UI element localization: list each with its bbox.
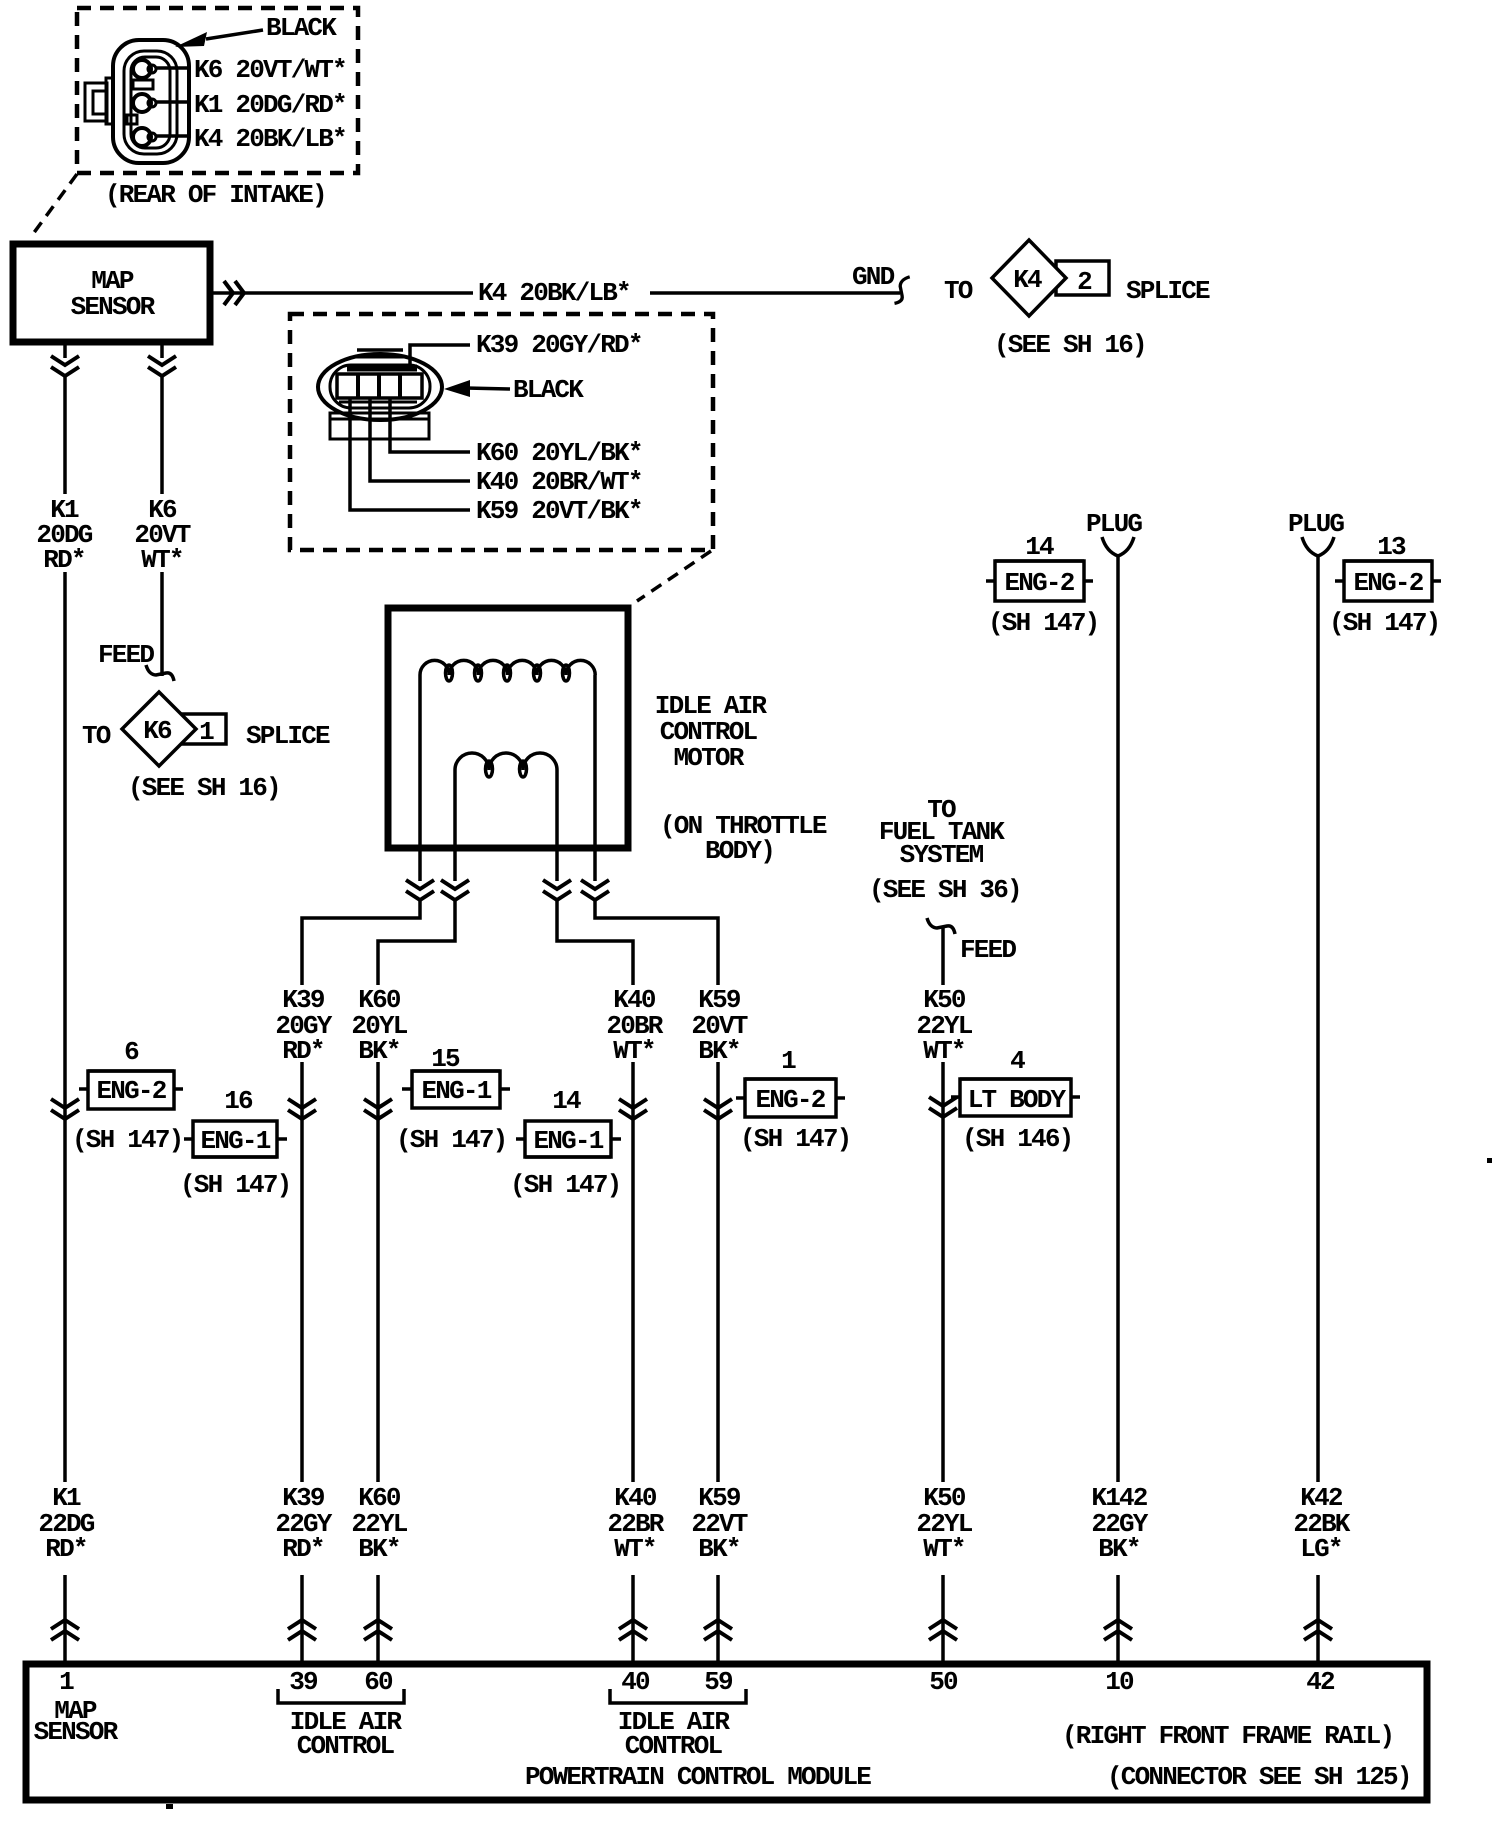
svg-text:59: 59 xyxy=(704,1667,733,1697)
wire K6 to feed splice xyxy=(160,572,164,676)
MAP SENSOR box xyxy=(13,244,210,342)
svg-text:13: 13 xyxy=(1377,532,1406,562)
wire K50 to PCM xyxy=(941,1575,945,1661)
leader K59 pin xyxy=(350,398,470,510)
svg-text:SENSOR: SENSOR xyxy=(34,1717,119,1747)
label K142 22GY BK* xyxy=(1091,1483,1148,1564)
label K40 20BR WT* xyxy=(606,985,663,1066)
svg-text:K4 20BK/LB*: K4 20BK/LB* xyxy=(194,124,346,154)
wire K50 main run xyxy=(941,1062,945,1482)
wire stub coil1 right xyxy=(593,845,597,881)
svg-text:(REAR OF INTAKE): (REAR OF INTAKE) xyxy=(105,180,326,210)
svg-text:TO: TO xyxy=(82,721,111,751)
connector ENG-1 cavity 14 xyxy=(516,1121,621,1157)
inline connector chevrons at PCM pin 1 xyxy=(51,1620,79,1640)
plug symbol K42 xyxy=(1302,537,1334,556)
wire break hook (GND) xyxy=(895,277,910,304)
label K59 20VT BK* xyxy=(691,985,747,1066)
inline connector chevrons at PCM pin 60 xyxy=(364,1620,392,1640)
svg-text:(SH 147): (SH 147) xyxy=(510,1170,620,1200)
connector C114 lower latch xyxy=(330,413,429,439)
svg-text:K40 20BR/WT*: K40 20BR/WT* xyxy=(476,467,642,497)
svg-text:BK*: BK* xyxy=(358,1534,399,1564)
label K6 20VT WT* xyxy=(134,495,190,575)
svg-text:(SH 147): (SH 147) xyxy=(180,1170,290,1200)
pin K4 cavity xyxy=(133,128,156,146)
IAC upper coil winding xyxy=(420,660,595,845)
connector C114 oval body xyxy=(318,350,442,420)
wire K1 to PCM xyxy=(63,1575,67,1661)
svg-text:RD*: RD* xyxy=(282,1534,323,1564)
svg-text:(SH 146): (SH 146) xyxy=(962,1124,1072,1154)
label K39 22GY RD* xyxy=(275,1483,332,1564)
wire K42 main run xyxy=(1316,556,1320,1482)
svg-text:K59 20VT/BK*: K59 20VT/BK* xyxy=(476,496,642,526)
wire K4 20BK/LB* from MAP sensor xyxy=(213,291,900,295)
svg-text:2: 2 xyxy=(1077,267,1092,297)
connector detail C114 dashed box xyxy=(290,314,713,550)
wire stub coil1 left xyxy=(418,845,422,881)
inline connector chevrons on K40 xyxy=(619,1099,647,1119)
svg-text:SPLICE: SPLICE xyxy=(246,721,330,751)
connector LT BODY cavity 4 xyxy=(951,1079,1080,1116)
svg-text:RD*: RD* xyxy=(282,1036,323,1066)
svg-text:6: 6 xyxy=(124,1037,139,1067)
inline connector chevrons on K1 xyxy=(51,1099,79,1119)
label K50 22YL WT* (bottom) xyxy=(916,1483,972,1564)
label IDLE AIR CONTROL MOTOR xyxy=(655,691,768,773)
svg-text:WT*: WT* xyxy=(923,1036,964,1066)
svg-text:TO: TO xyxy=(944,276,973,306)
inline connector chevrons at PCM pin 59 xyxy=(704,1620,732,1640)
connector detail C113 dashed box xyxy=(77,8,358,173)
svg-text:K60 20YL/BK*: K60 20YL/BK* xyxy=(476,438,642,468)
wire K59 main run xyxy=(716,1062,720,1482)
label MAP SENSOR (PCM) xyxy=(34,1696,119,1747)
inline connector chevrons at PCM pin 39 xyxy=(288,1620,316,1640)
svg-text:1: 1 xyxy=(199,717,214,747)
wire K6 upper run xyxy=(160,377,164,494)
keyway rects xyxy=(127,80,153,124)
plug symbol K142 xyxy=(1102,537,1134,556)
pin K6 cavity xyxy=(133,60,156,78)
BLACK arrow (top connector) xyxy=(175,30,263,47)
svg-text:WT*: WT* xyxy=(613,1036,654,1066)
label K1 20DG RD* xyxy=(36,495,92,575)
leader K40 pin xyxy=(370,398,470,481)
label (ON THROTTLE BODY) xyxy=(660,811,827,866)
inline connector chevrons on K50 xyxy=(929,1097,957,1117)
inline connector chevrons at PCM pin 40 xyxy=(619,1620,647,1640)
wire K1 stub below MAP sensor xyxy=(63,345,67,358)
wire K39 to PCM xyxy=(300,1575,304,1661)
label IDLE AIR CONTROL (40-59) xyxy=(618,1707,731,1761)
svg-text:ENG-1: ENG-1 xyxy=(200,1126,270,1156)
wire K59 to PCM xyxy=(716,1575,720,1661)
wire K59 upper routing xyxy=(595,901,718,985)
svg-text:BK*: BK* xyxy=(698,1534,739,1564)
svg-text:BLACK: BLACK xyxy=(513,375,584,405)
svg-text:ENG-2: ENG-2 xyxy=(1004,568,1074,598)
wire K42 to PCM xyxy=(1316,1575,1320,1661)
svg-text:K6: K6 xyxy=(143,716,172,746)
svg-text:(SH 147): (SH 147) xyxy=(72,1125,182,1155)
wire stub coil2 left xyxy=(453,845,457,881)
svg-text:K1 20DG/RD*: K1 20DG/RD* xyxy=(194,90,346,120)
svg-text:(SEE SH 16): (SEE SH 16) xyxy=(128,773,280,803)
svg-text:CONTROL: CONTROL xyxy=(297,1731,395,1761)
inline connector chevrons on K6 xyxy=(148,356,176,376)
inline connector chevrons K39 xyxy=(406,880,434,900)
connector ENG-2 cavity 13 xyxy=(1335,561,1441,601)
svg-text:(RIGHT FRONT FRAME RAIL): (RIGHT FRONT FRAME RAIL) xyxy=(1062,1721,1393,1751)
svg-text:SENSOR: SENSOR xyxy=(71,292,156,322)
svg-text:BLACK: BLACK xyxy=(266,13,337,43)
bracket pins 40-59 xyxy=(610,1689,746,1703)
connector C113 body (3-pin, rear of intake) xyxy=(113,40,189,163)
wire break hook (K6 feed) xyxy=(146,665,174,681)
svg-text:(SH 147): (SH 147) xyxy=(396,1125,506,1155)
wire K39 upper routing xyxy=(302,901,420,985)
svg-text:RD*: RD* xyxy=(43,545,84,575)
svg-text:PLUG: PLUG xyxy=(1086,509,1142,539)
wire K40 main run xyxy=(631,1062,635,1482)
inline connector chevrons at PCM pin 42 xyxy=(1304,1620,1332,1640)
connector ENG-2 cavity 1 xyxy=(736,1079,845,1117)
inline connector chevrons at PCM pin 50 xyxy=(929,1620,957,1640)
svg-text:WT*: WT* xyxy=(614,1534,655,1564)
label K59 22VT BK* xyxy=(691,1483,747,1564)
wire stub coil2 right xyxy=(555,845,559,881)
label K42 22BK LG* xyxy=(1293,1483,1350,1564)
connector ENG-2 cavity 6 xyxy=(79,1071,183,1109)
wire break hook (K50 feed) xyxy=(927,918,955,934)
wire K1 main run xyxy=(63,572,67,1482)
label K1 22DG RD* xyxy=(38,1483,94,1564)
inline connector chevrons on K60 xyxy=(364,1099,392,1119)
dashed leader to MAP sensor xyxy=(30,174,77,238)
svg-text:ENG-2: ENG-2 xyxy=(1353,568,1423,598)
svg-text:BK*: BK* xyxy=(698,1036,739,1066)
wire K60 to PCM xyxy=(376,1575,380,1661)
svg-text:16: 16 xyxy=(224,1086,253,1116)
wire K142 main run xyxy=(1116,556,1120,1482)
svg-text:K6 20VT/WT*: K6 20VT/WT* xyxy=(194,55,346,85)
connector ENG-2 cavity 14 (top) xyxy=(986,561,1093,601)
svg-text:14: 14 xyxy=(1025,532,1054,562)
svg-text:LT BODY: LT BODY xyxy=(968,1085,1067,1115)
inline connector chevrons at PCM pin 10 xyxy=(1104,1620,1132,1640)
wire K6 stub below MAP sensor xyxy=(160,345,164,358)
svg-text:BK*: BK* xyxy=(358,1036,399,1066)
svg-text:50: 50 xyxy=(929,1667,958,1697)
leader K39 pin xyxy=(410,345,470,364)
IAC lower coil winding xyxy=(455,753,557,845)
wire K40 upper routing xyxy=(557,901,633,985)
svg-text:(SH 147): (SH 147) xyxy=(740,1124,850,1154)
inline connector chevrons on K4 wire xyxy=(224,281,244,305)
svg-text:40: 40 xyxy=(621,1667,650,1697)
svg-text:FEED: FEED xyxy=(960,935,1016,965)
svg-text:SYSTEM: SYSTEM xyxy=(900,840,984,870)
powertrain control module box xyxy=(26,1664,1427,1800)
inline connector chevrons on K59 xyxy=(704,1099,732,1119)
dashed leader to IAC motor xyxy=(637,551,711,601)
inline connector chevrons on K1 xyxy=(51,356,79,376)
wire K1 upper run xyxy=(63,377,67,494)
wire K142 to PCM xyxy=(1116,1575,1120,1661)
leader K60 pin xyxy=(390,398,470,452)
svg-text:K39 20GY/RD*: K39 20GY/RD* xyxy=(476,330,642,360)
svg-text:WT*: WT* xyxy=(141,545,182,575)
wire K40 to PCM xyxy=(631,1575,635,1661)
label IDLE AIR CONTROL (39-60) xyxy=(290,1707,403,1761)
label K40 22BR WT* xyxy=(607,1483,664,1564)
svg-text:ENG-1: ENG-1 xyxy=(533,1126,603,1156)
wire K50 upper stub xyxy=(941,928,945,985)
svg-text:K4: K4 xyxy=(1013,265,1042,295)
wire K60 main run xyxy=(376,1062,380,1482)
svg-text:ENG-2: ENG-2 xyxy=(755,1085,825,1115)
pin K1 cavity xyxy=(133,94,156,112)
svg-text:1: 1 xyxy=(781,1046,796,1076)
svg-text:GND: GND xyxy=(852,262,895,292)
label MAP SENSOR xyxy=(71,266,156,322)
idle air control motor box xyxy=(388,608,628,848)
inline connector chevrons on K39 xyxy=(288,1099,316,1119)
inline connector chevrons K60 xyxy=(441,880,469,900)
leader line pin K6 xyxy=(156,66,191,70)
svg-text:SPLICE: SPLICE xyxy=(1126,276,1210,306)
svg-text:(SH 147): (SH 147) xyxy=(1329,608,1439,638)
BLACK arrow (oval connector) xyxy=(444,380,510,397)
connector C114 pin row xyxy=(337,374,422,402)
connector C113 left tab xyxy=(85,78,113,124)
label K60 22YL BK* xyxy=(351,1483,407,1564)
label K39 20GY RD* xyxy=(275,985,332,1066)
svg-text:4: 4 xyxy=(1010,1046,1025,1076)
svg-text:14: 14 xyxy=(552,1086,581,1116)
svg-text:ENG-2: ENG-2 xyxy=(96,1076,166,1106)
svg-text:42: 42 xyxy=(1306,1667,1335,1697)
inline connector chevrons K40 xyxy=(543,880,571,900)
svg-text:60: 60 xyxy=(364,1667,393,1697)
svg-text:BK*: BK* xyxy=(1098,1534,1139,1564)
svg-text:CONTROL: CONTROL xyxy=(625,1731,723,1761)
svg-text:(SH 147): (SH 147) xyxy=(988,608,1098,638)
svg-text:15: 15 xyxy=(431,1044,460,1074)
svg-text:LG*: LG* xyxy=(1300,1534,1341,1564)
connector ENG-1 cavity 15 xyxy=(402,1071,510,1108)
svg-text:(SEE SH 16): (SEE SH 16) xyxy=(994,330,1146,360)
connector ENG-1 cavity 16 xyxy=(184,1121,287,1157)
label K60 20YL BK* xyxy=(351,985,407,1066)
wire K39 main run xyxy=(300,1062,304,1482)
svg-text:10: 10 xyxy=(1105,1667,1134,1697)
splice symbol K6 pin 1 xyxy=(122,692,226,766)
stray dot right margin xyxy=(1487,1158,1492,1163)
bracket pins 39-60 xyxy=(278,1689,404,1703)
leader line pin K4 xyxy=(156,134,191,138)
svg-text:POWERTRAIN CONTROL MODULE: POWERTRAIN CONTROL MODULE xyxy=(525,1762,871,1792)
svg-text:1: 1 xyxy=(59,1667,74,1697)
svg-text:PLUG: PLUG xyxy=(1288,509,1344,539)
leader line pin K1 xyxy=(156,100,191,104)
svg-text:(SEE SH 36): (SEE SH 36) xyxy=(869,875,1021,905)
svg-text:WT*: WT* xyxy=(923,1534,964,1564)
svg-text:MOTOR: MOTOR xyxy=(673,743,744,773)
svg-text:RD*: RD* xyxy=(45,1534,86,1564)
stray mark below PCM xyxy=(166,1804,173,1809)
svg-text:K4 20BK/LB*: K4 20BK/LB* xyxy=(478,278,630,308)
inline connector chevrons K59 xyxy=(581,880,609,900)
label K50 22YL WT* xyxy=(916,985,972,1066)
svg-text:BODY): BODY) xyxy=(705,836,774,866)
svg-text:ENG-1: ENG-1 xyxy=(421,1076,491,1106)
svg-text:(CONNECTOR SEE SH 125): (CONNECTOR SEE SH 125) xyxy=(1107,1762,1411,1792)
wire K60 upper routing xyxy=(378,901,455,985)
label TO FUEL TANK SYSTEM xyxy=(879,795,1005,870)
splice symbol K4 pin 2 xyxy=(992,240,1109,316)
svg-text:39: 39 xyxy=(289,1667,318,1697)
